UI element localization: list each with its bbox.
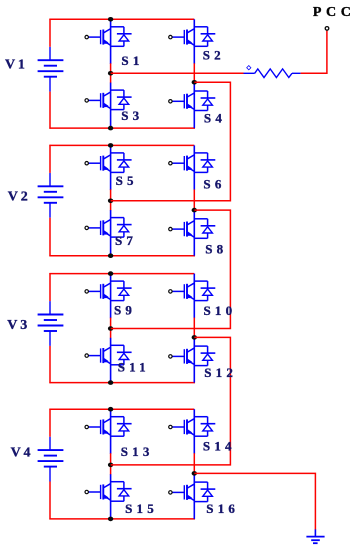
- svg-text:S11: S11: [118, 360, 150, 375]
- svg-text:S10: S10: [204, 303, 237, 318]
- svg-text:V1: V1: [5, 58, 28, 73]
- svg-text:V3: V3: [7, 318, 30, 333]
- svg-text:S13: S13: [121, 444, 154, 459]
- svg-text:V4: V4: [11, 446, 34, 461]
- svg-text:S7: S7: [115, 233, 137, 248]
- svg-text:S6: S6: [203, 177, 225, 192]
- svg-text:S12: S12: [204, 365, 237, 380]
- svg-text:S4: S4: [204, 110, 226, 125]
- svg-text:S3: S3: [121, 108, 143, 123]
- svg-text:V2: V2: [8, 189, 31, 204]
- svg-text:S15: S15: [125, 501, 158, 516]
- svg-text:S16: S16: [206, 501, 239, 516]
- svg-text:S14: S14: [203, 439, 236, 454]
- svg-text:S9: S9: [114, 302, 136, 317]
- svg-text:PCC: PCC: [313, 5, 356, 20]
- svg-text:S2: S2: [203, 48, 225, 63]
- svg-text:S8: S8: [205, 242, 227, 257]
- svg-text:S5: S5: [116, 173, 138, 188]
- svg-text:S1: S1: [121, 53, 143, 68]
